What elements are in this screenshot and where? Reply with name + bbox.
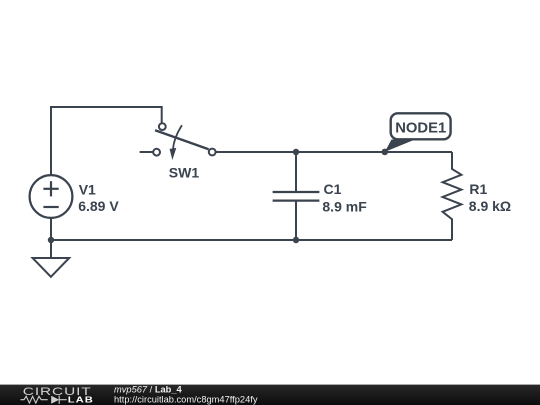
svg-text:LAB: LAB [68, 396, 94, 405]
svg-text:mvp567 / Lab_4: mvp567 / Lab_4 [114, 385, 183, 395]
svg-text:R1: R1 [469, 181, 487, 197]
svg-text:SW1: SW1 [169, 165, 200, 181]
svg-text:http://circuitlab.com/c8gm47ff: http://circuitlab.com/c8gm47ffp24fy [114, 394, 258, 404]
svg-text:8.9 kΩ: 8.9 kΩ [469, 198, 511, 214]
svg-text:V1: V1 [79, 182, 96, 198]
svg-text:6.89 V: 6.89 V [78, 198, 119, 214]
svg-text:8.9 mF: 8.9 mF [322, 198, 367, 214]
svg-text:NODE1: NODE1 [395, 120, 446, 136]
svg-text:C1: C1 [324, 181, 342, 197]
